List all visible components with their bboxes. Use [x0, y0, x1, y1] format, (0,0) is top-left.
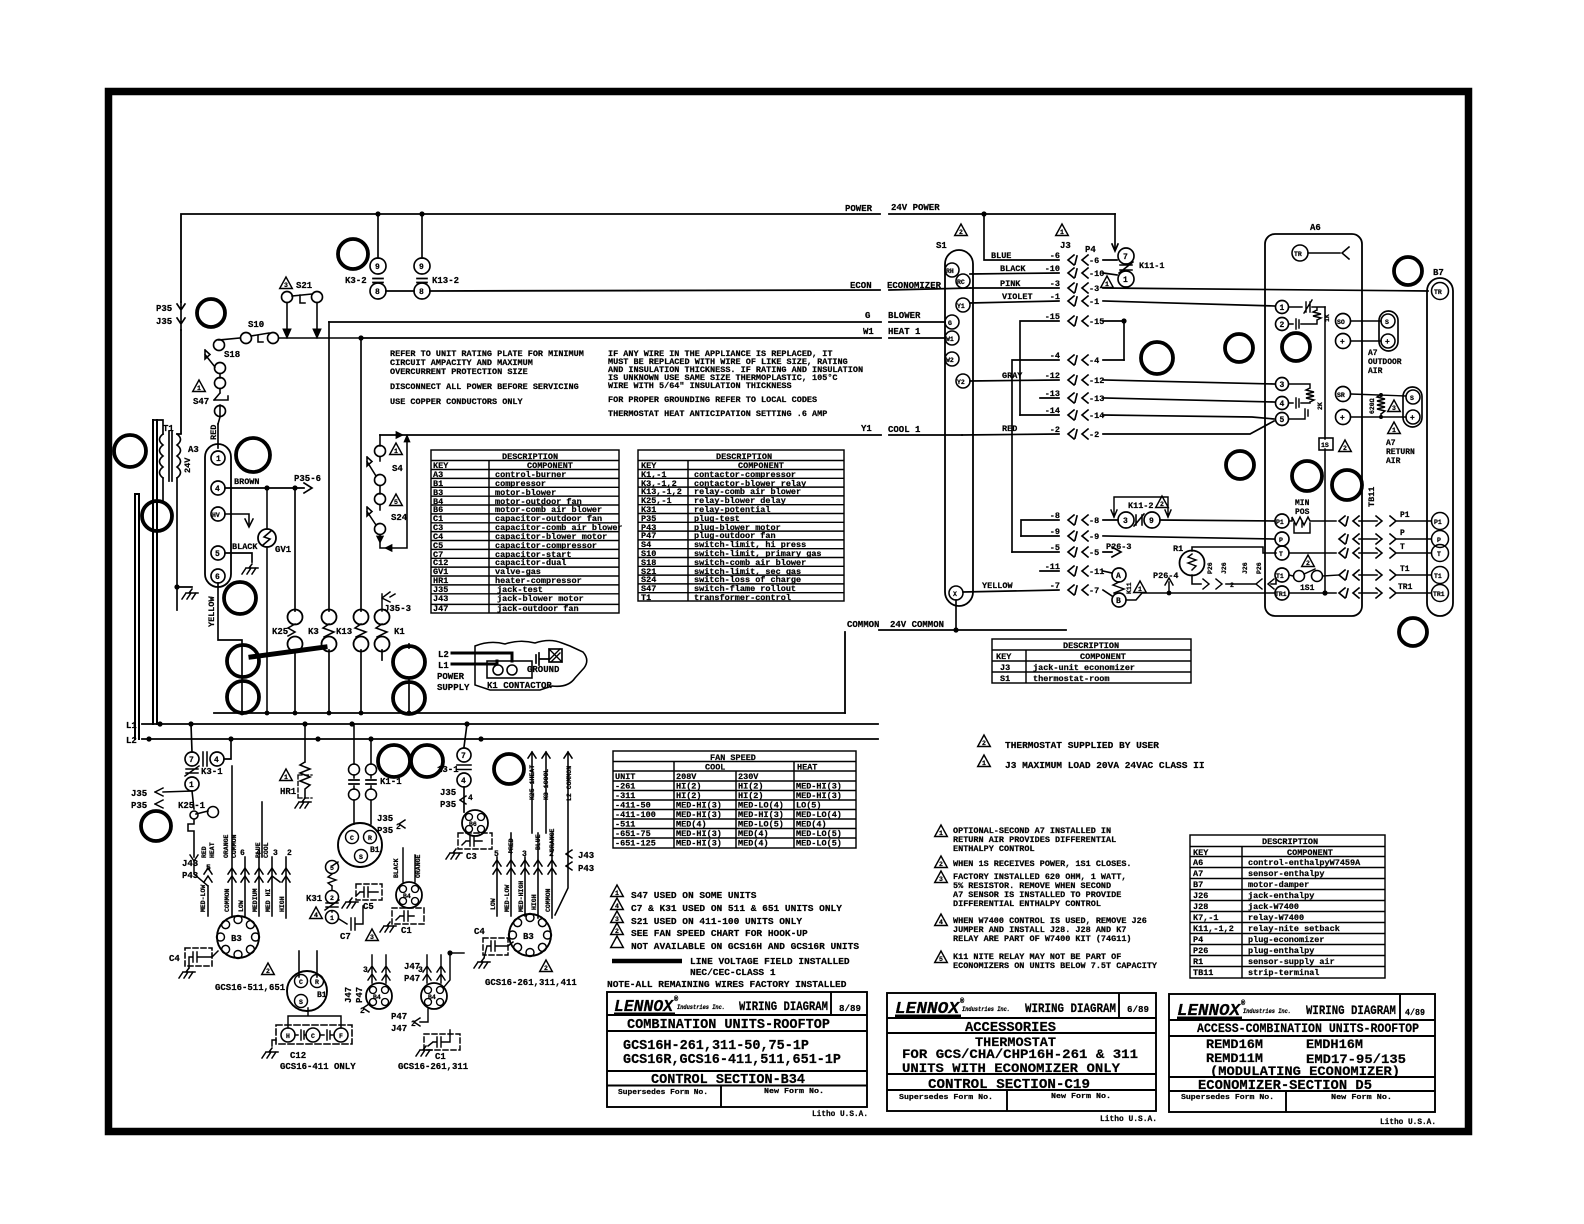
svg-text:RH: RH	[946, 268, 954, 275]
wire G BLOWER bus	[329, 321, 945, 323]
svg-text:ORANGE: ORANGE	[549, 828, 556, 852]
svg-text:P26: P26	[1256, 562, 1263, 574]
svg-text:230V: 230V	[738, 772, 759, 782]
svg-text:3: 3	[284, 282, 288, 289]
jack chevrons TR1 row	[1339, 588, 1359, 598]
svg-text:P1: P1	[1276, 519, 1284, 526]
svg-text:C12: C12	[290, 1051, 306, 1061]
svg-text:B4: B4	[403, 893, 411, 900]
svg-text:13-1: 13-1	[437, 765, 459, 775]
component table economizer (A6..TB11)	[1190, 835, 1385, 978]
svg-text:2: 2	[959, 229, 963, 236]
switch 1S	[1319, 438, 1333, 450]
svg-text:P43: P43	[578, 864, 594, 874]
svg-text:+: +	[1340, 338, 1345, 347]
svg-text:P47: P47	[391, 1012, 407, 1022]
wire 24V COMMON bus	[845, 630, 1066, 713]
svg-text:1: 1	[189, 781, 194, 790]
svg-text:REMD16M: REMD16M	[1206, 1037, 1263, 1052]
svg-text:ACCESSORIES: ACCESSORIES	[965, 1020, 1056, 1036]
svg-text:-12: -12	[1045, 371, 1060, 381]
svg-text:COMPONENT: COMPONENT	[1080, 652, 1126, 662]
svg-text:THERMOSTAT SUPPLIED BY USER: THERMOSTAT SUPPLIED BY USER	[1005, 740, 1159, 751]
svg-text:S24: S24	[391, 513, 408, 523]
svg-text:plug-enthalpy: plug-enthalpy	[1248, 946, 1314, 956]
svg-text:OVERCURRENT PROTECTION SIZE: OVERCURRENT PROTECTION SIZE	[390, 367, 528, 377]
svg-text:GCS16R,GCS16-411,511,651-1P: GCS16R,GCS16-411,511,651-1P	[623, 1053, 841, 1068]
svg-text:B4: B4	[428, 994, 436, 1001]
note list right	[935, 735, 1205, 971]
svg-text:-2: -2	[1050, 425, 1060, 435]
svg-text:J43: J43	[578, 851, 594, 861]
svg-text:POWER: POWER	[437, 672, 465, 682]
wire ECON bus	[386, 288, 970, 291]
svg-text:-5: -5	[1050, 543, 1060, 553]
svg-text:A7: A7	[1368, 349, 1378, 358]
svg-text:G: G	[865, 311, 870, 321]
svg-text:plug-economizer: plug-economizer	[1248, 935, 1325, 945]
svg-text:KEY: KEY	[996, 652, 1012, 662]
svg-text:AIR: AIR	[1386, 457, 1401, 466]
svg-text:BLACK: BLACK	[232, 542, 258, 552]
loop circle near K3-2	[338, 239, 368, 269]
svg-text:3: 3	[1280, 381, 1285, 390]
loop circle right of A3	[236, 438, 270, 472]
svg-text:MIN: MIN	[1295, 499, 1310, 508]
svg-text:B7: B7	[1433, 268, 1444, 278]
svg-text:RED: RED	[201, 846, 208, 858]
svg-text:P26: P26	[1193, 946, 1208, 956]
svg-text:S4: S4	[392, 464, 403, 474]
svg-text:J43: J43	[182, 859, 198, 869]
svg-text:B1: B1	[317, 991, 327, 1000]
svg-text:W1: W1	[863, 327, 874, 337]
svg-text:GCS16-261,311,411: GCS16-261,311,411	[485, 978, 577, 988]
svg-text:COOL: COOL	[263, 842, 270, 858]
svg-text:WHEN 1S RECEIVES POWER, 1S1 CL: WHEN 1S RECEIVES POWER, 1S1 CLOSES.	[953, 859, 1132, 869]
svg-text:AIR: AIR	[1368, 367, 1383, 376]
svg-text:J47: J47	[391, 1024, 407, 1034]
component table left (A3..J47)	[431, 450, 619, 613]
svg-text:-651-75: -651-75	[615, 829, 651, 839]
valve GV1	[258, 529, 276, 547]
svg-text:LINE VOLTAGE FIELD INSTALLED: LINE VOLTAGE FIELD INSTALLED	[690, 956, 850, 967]
fan speed table	[613, 751, 856, 848]
jack chevrons T row	[1339, 548, 1359, 558]
svg-text:J47: J47	[433, 604, 448, 614]
svg-text:relay-W7400: relay-W7400	[1248, 913, 1304, 923]
title block C (economizer section D5)	[1169, 994, 1435, 1112]
svg-text:-1: -1	[1050, 292, 1060, 302]
svg-text:S21: S21	[296, 281, 313, 291]
svg-text:KEY: KEY	[1193, 848, 1209, 858]
svg-text:K3-2: K3-2	[345, 276, 367, 286]
svg-text:MED HI: MED HI	[265, 888, 272, 912]
svg-text:-651-125: -651-125	[615, 839, 656, 849]
svg-text:J26: J26	[1193, 891, 1208, 901]
svg-text:ORANGE: ORANGE	[415, 854, 422, 878]
svg-text:-14: -14	[1089, 411, 1104, 421]
svg-text:C4: C4	[474, 927, 485, 937]
svg-text:EMDH16M: EMDH16M	[1306, 1037, 1363, 1052]
svg-text:1: 1	[1138, 586, 1142, 593]
svg-text:DISCONNECT ALL POWER BEFORE SE: DISCONNECT ALL POWER BEFORE SERVICING	[390, 382, 579, 392]
svg-text:SUPPLY: SUPPLY	[437, 683, 470, 693]
svg-text:L1: L1	[438, 661, 449, 671]
svg-text:GV1: GV1	[275, 545, 292, 555]
loop circle bottom-left	[141, 811, 171, 841]
loop circles right side	[1141, 342, 1173, 374]
jack chevrons P1 row	[1339, 516, 1359, 526]
svg-text:1: 1	[1392, 427, 1396, 434]
svg-text:jack-W7400: jack-W7400	[1248, 902, 1299, 912]
svg-text:R: R	[368, 835, 372, 842]
svg-text:1S: 1S	[1321, 442, 1329, 449]
svg-text:COMMON: COMMON	[224, 888, 231, 912]
svg-text:+: +	[1410, 414, 1415, 423]
svg-text:SR: SR	[1337, 392, 1345, 399]
svg-text:SEE FAN SPEED CHART FOR HOOK-U: SEE FAN SPEED CHART FOR HOOK-UP	[631, 928, 808, 939]
svg-text:RED: RED	[1002, 424, 1017, 434]
blower B6	[462, 810, 488, 836]
relay K31 chain	[332, 862, 338, 912]
svg-text:5: 5	[215, 550, 220, 559]
loop circle right of K13-1	[494, 754, 524, 784]
svg-text:6/89: 6/89	[1127, 1004, 1149, 1015]
svg-text:T: T	[1437, 551, 1441, 558]
svg-text:TR1: TR1	[1433, 591, 1445, 598]
svg-text:New Form No.: New Form No.	[1331, 1094, 1392, 1102]
svg-text:C1: C1	[435, 1052, 446, 1062]
svg-text:B3: B3	[231, 934, 242, 944]
svg-text:Y1: Y1	[957, 303, 965, 310]
svg-text:C3: C3	[466, 852, 477, 862]
svg-text:thermostat-room: thermostat-room	[1033, 674, 1110, 684]
svg-text:2: 2	[266, 968, 270, 975]
svg-text:2: 2	[1306, 560, 1310, 567]
fan motor B4 (3)	[423, 953, 450, 987]
svg-text:4: 4	[461, 777, 466, 786]
svg-text:POS: POS	[1295, 508, 1310, 517]
svg-text:S18: S18	[224, 350, 240, 360]
wire -11	[1040, 571, 1112, 573]
svg-text:Litho U.S.A.: Litho U.S.A.	[1380, 1117, 1436, 1127]
svg-text:7: 7	[1123, 253, 1128, 262]
svg-text:C: C	[311, 1033, 315, 1040]
svg-text:-1: -1	[1089, 297, 1099, 307]
svg-text:S1: S1	[1000, 674, 1010, 684]
svg-text:1S1: 1S1	[1300, 584, 1315, 593]
svg-text:TB11: TB11	[1367, 487, 1377, 507]
svg-text:-10: -10	[1045, 264, 1060, 274]
svg-text:S47 USED ON SOME UNITS: S47 USED ON SOME UNITS	[631, 890, 757, 901]
svg-text:G: G	[948, 320, 952, 327]
svg-text:K25-1HEAT: K25-1HEAT	[529, 765, 536, 800]
svg-text:-311: -311	[615, 791, 635, 801]
svg-text:J35: J35	[156, 317, 172, 327]
svg-text:2: 2	[939, 861, 943, 868]
capacitor C3	[458, 833, 492, 849]
svg-text:DESCRIPTION: DESCRIPTION	[1063, 641, 1119, 651]
wire 1S riser	[1324, 307, 1326, 593]
svg-text:GCS16-511,651: GCS16-511,651	[215, 983, 286, 993]
svg-text:2: 2	[330, 895, 334, 902]
svg-text:COMMON: COMMON	[847, 620, 879, 630]
svg-text:2: 2	[1230, 582, 1234, 589]
terminal 3	[1276, 378, 1289, 391]
svg-text:24V COMMON: 24V COMMON	[890, 620, 944, 630]
svg-text:5: 5	[330, 865, 334, 872]
svg-text:-6: -6	[1089, 256, 1099, 266]
svg-text:CONTROL SECTION-B34: CONTROL SECTION-B34	[651, 1073, 805, 1088]
svg-text:GCS16-261,311: GCS16-261,311	[398, 1062, 469, 1072]
svg-text:BLACK: BLACK	[393, 858, 400, 878]
svg-text:VIOLET: VIOLET	[1002, 292, 1033, 302]
svg-text:+: +	[1340, 414, 1345, 423]
svg-text:1: 1	[216, 455, 221, 464]
svg-text:Supersedes Form No.: Supersedes Form No.	[618, 1089, 708, 1097]
svg-text:6: 6	[215, 573, 220, 582]
svg-text:1: 1	[394, 448, 398, 455]
svg-text:DESCRIPTION: DESCRIPTION	[1262, 837, 1318, 847]
svg-text:LOW: LOW	[490, 898, 497, 910]
svg-text:H: H	[286, 1033, 290, 1040]
svg-text:HIGH: HIGH	[279, 896, 286, 912]
svg-text:P35: P35	[377, 826, 393, 836]
svg-text:5: 5	[939, 956, 943, 963]
svg-text:T1: T1	[1434, 573, 1442, 580]
svg-text:2: 2	[615, 928, 619, 935]
wire -14	[1020, 415, 1274, 419]
svg-text:P35: P35	[440, 800, 456, 810]
wire line voltage bar 2	[135, 494, 139, 739]
wire -13	[1040, 398, 1275, 402]
svg-text:MED(4): MED(4)	[676, 820, 707, 830]
svg-text:L2 COMMON: L2 COMMON	[566, 766, 573, 801]
svg-text:motor-damper: motor-damper	[1248, 880, 1309, 890]
svg-text:sensor-enthalpy: sensor-enthalpy	[1248, 869, 1325, 879]
svg-text:MED-HI(3): MED-HI(3)	[738, 810, 784, 820]
svg-text:S: S	[359, 854, 363, 861]
svg-text:BROWN: BROWN	[234, 477, 260, 487]
svg-text:COOL: COOL	[705, 763, 725, 773]
svg-text:S21 USED ON 411-100 UNITS ONLY: S21 USED ON 411-100 UNITS ONLY	[631, 916, 802, 927]
relay contact K13	[360, 338, 362, 713]
svg-text:-9: -9	[1050, 527, 1060, 537]
svg-text:GCS16-411 ONLY: GCS16-411 ONLY	[280, 1062, 356, 1072]
svg-text:-14: -14	[1045, 406, 1060, 416]
svg-text:K25: K25	[272, 627, 288, 637]
svg-text:HR1: HR1	[280, 787, 297, 797]
svg-text:-12: -12	[1089, 376, 1104, 386]
svg-text:MED(4): MED(4)	[738, 829, 769, 839]
wire L1 bus	[142, 723, 878, 725]
svg-text:GCS16H-261,311-50,75-1P: GCS16H-261,311-50,75-1P	[623, 1039, 809, 1054]
capacitor C1 (2)	[424, 1034, 460, 1050]
title block A (control section B34)	[607, 992, 867, 1107]
svg-text:4: 4	[468, 794, 473, 803]
svg-text:K11-2: K11-2	[1128, 501, 1154, 511]
svg-text:J43: J43	[433, 594, 448, 604]
svg-text:-6: -6	[1050, 251, 1060, 261]
svg-text:2: 2	[544, 965, 548, 972]
terminal P	[1275, 532, 1289, 546]
svg-text:HEAT: HEAT	[209, 842, 216, 858]
svg-text:1: 1	[330, 915, 334, 922]
loop circle yellow1	[227, 645, 259, 677]
svg-text:BLUE: BLUE	[535, 834, 542, 850]
svg-text:FAN SPEED: FAN SPEED	[710, 753, 756, 763]
svg-text:K3: K3	[308, 627, 319, 637]
svg-text:-15: -15	[1045, 312, 1060, 322]
svg-text:NEC/CEC-CLASS 1: NEC/CEC-CLASS 1	[690, 967, 776, 978]
svg-text:TR1: TR1	[1398, 583, 1413, 592]
svg-text:YELLOW: YELLOW	[982, 581, 1014, 591]
svg-text:S47: S47	[193, 397, 209, 407]
switch 1S1	[1302, 555, 1315, 567]
svg-text:S: S	[1385, 319, 1389, 326]
svg-text:B: B	[1116, 597, 1121, 606]
heater HR1	[280, 769, 293, 781]
svg-text:POWER: POWER	[845, 204, 873, 214]
svg-text:4: 4	[215, 485, 220, 494]
svg-text:3: 3	[418, 966, 423, 975]
svg-text:GRAY: GRAY	[1002, 371, 1023, 381]
terminal T	[1275, 546, 1289, 560]
svg-text:COMBINATION UNITS-ROOFTOP: COMBINATION UNITS-ROOFTOP	[627, 1017, 830, 1033]
svg-text:J3: J3	[1000, 663, 1010, 673]
loop circle right b	[393, 682, 425, 714]
svg-text:UNIT: UNIT	[615, 772, 635, 782]
svg-text:sensor-supply air: sensor-supply air	[1248, 957, 1335, 967]
svg-text:-7: -7	[1089, 586, 1099, 596]
svg-text:MED-LO(4): MED-LO(4)	[796, 810, 842, 820]
svg-text:4: 4	[256, 849, 261, 858]
svg-text:P4: P4	[1193, 935, 1203, 945]
svg-text:1: 1	[982, 760, 986, 767]
svg-text:control-enthalpyW7459A: control-enthalpyW7459A	[1248, 858, 1361, 868]
svg-text:MED-HI(3): MED-HI(3)	[676, 829, 722, 839]
svg-text:-13: -13	[1089, 394, 1104, 404]
svg-text:1: 1	[1123, 276, 1128, 285]
svg-text:C5: C5	[363, 902, 374, 912]
svg-text:relay-nite setback: relay-nite setback	[1248, 924, 1340, 934]
svg-text:1: 1	[1060, 229, 1064, 236]
svg-text:A6: A6	[1310, 223, 1321, 233]
svg-text:4: 4	[1280, 400, 1285, 409]
sensor A7 outdoor	[1336, 314, 1351, 329]
relay contact K3	[328, 322, 330, 713]
svg-text:-3: -3	[1050, 279, 1060, 289]
svg-text:K13: K13	[336, 627, 352, 637]
terminal 4	[1276, 397, 1289, 410]
warning triangles above S1 and J3	[955, 224, 968, 236]
svg-text:F: F	[339, 1033, 343, 1040]
wire line voltage bar left	[153, 420, 157, 724]
svg-text:B4: B4	[373, 994, 381, 1001]
svg-text:P1: P1	[1400, 511, 1410, 520]
svg-text:jack-unit economizer: jack-unit economizer	[1033, 663, 1135, 673]
wire HV to GV1	[225, 514, 253, 527]
svg-text:R: R	[315, 979, 319, 986]
svg-text:1: 1	[939, 830, 943, 837]
svg-text:MED-LOW: MED-LOW	[504, 885, 511, 912]
svg-text:J26: J26	[1221, 562, 1228, 574]
svg-text:-511: -511	[615, 820, 635, 830]
terminal P1 with MIN POS pot	[1275, 514, 1289, 528]
loop circle below A3	[224, 582, 256, 614]
contact and resistor 1K	[1289, 300, 1325, 329]
svg-text:W2: W2	[946, 357, 954, 364]
svg-text:WIRING DIAGRAM: WIRING DIAGRAM	[1306, 1004, 1396, 1018]
svg-text:MED-LOW: MED-LOW	[200, 885, 207, 912]
svg-text:3: 3	[370, 934, 374, 941]
svg-text:K11,-1,2: K11,-1,2	[1193, 924, 1234, 934]
svg-text:MED-HI(3): MED-HI(3)	[796, 782, 842, 792]
jack chevrons P row	[1339, 534, 1359, 544]
contact K13-2	[421, 214, 423, 258]
svg-text:ECON: ECON	[850, 281, 872, 291]
svg-text:jack-enthalpy: jack-enthalpy	[1248, 891, 1314, 901]
switch S21	[280, 277, 293, 289]
svg-text:MED-HIGH: MED-HIGH	[518, 881, 525, 912]
svg-text:P: P	[1437, 537, 1441, 544]
svg-text:HIGH: HIGH	[531, 894, 538, 910]
loop circle near P35	[197, 299, 225, 327]
svg-text:4: 4	[939, 919, 943, 926]
svg-text:-11: -11	[1045, 562, 1060, 572]
svg-text:B3: B3	[523, 932, 534, 942]
svg-text:J3 MAXIMUM LOAD 20VA 24VAC CLA: J3 MAXIMUM LOAD 20VA 24VAC CLASS II	[1005, 760, 1205, 771]
svg-text:C7 & K31 USED ON 511 & 651 UNI: C7 & K31 USED ON 511 & 651 UNITS ONLY	[631, 903, 842, 914]
svg-text:-11: -11	[1089, 567, 1104, 577]
svg-text:K25-1: K25-1	[178, 801, 206, 811]
svg-text:K11: K11	[1126, 582, 1133, 594]
wire to transformer	[180, 330, 182, 433]
svg-text:B7: B7	[1193, 880, 1203, 890]
svg-text:P47: P47	[355, 987, 365, 1003]
svg-text:CONTROL SECTION-C19: CONTROL SECTION-C19	[928, 1078, 1090, 1093]
svg-text:RELAY ARE PART OF W7400 KIT (7: RELAY ARE PART OF W7400 KIT (74G11)	[953, 934, 1132, 944]
svg-text:P4: P4	[1085, 245, 1096, 255]
svg-text:4: 4	[508, 848, 513, 857]
svg-text:-13: -13	[1045, 389, 1060, 399]
svg-text:HI(2): HI(2)	[676, 782, 702, 792]
svg-text:K7,-1: K7,-1	[1193, 913, 1219, 923]
svg-text:-411-100: -411-100	[615, 810, 656, 820]
jack chevrons T1 row	[1339, 570, 1359, 580]
svg-text:ORANGE: ORANGE	[223, 834, 230, 858]
svg-text:MED-LO(5): MED-LO(5)	[796, 829, 842, 839]
svg-text:TR1: TR1	[1275, 591, 1287, 598]
svg-text:J26: J26	[1242, 562, 1249, 574]
svg-text:A: A	[1116, 572, 1121, 581]
svg-text:-15: -15	[1089, 317, 1104, 327]
svg-text:3: 3	[1123, 517, 1128, 526]
svg-text:MED-HI(3): MED-HI(3)	[796, 791, 842, 801]
svg-text:4: 4	[314, 912, 318, 919]
svg-text:ACCESS-COMBINATION UNITS-ROOFT: ACCESS-COMBINATION UNITS-ROOFTOP	[1197, 1021, 1419, 1036]
svg-text:+: +	[1385, 338, 1390, 347]
svg-text:New Form No.: New Form No.	[1051, 1093, 1111, 1101]
svg-text:S1: S1	[936, 241, 947, 251]
svg-text:J35: J35	[131, 789, 147, 799]
svg-text:B6: B6	[469, 821, 477, 828]
svg-text:-3: -3	[1089, 284, 1099, 294]
svg-text:strip-terminal: strip-terminal	[1248, 968, 1319, 978]
contact K13-1	[464, 724, 467, 812]
capacitor C5	[356, 884, 382, 900]
